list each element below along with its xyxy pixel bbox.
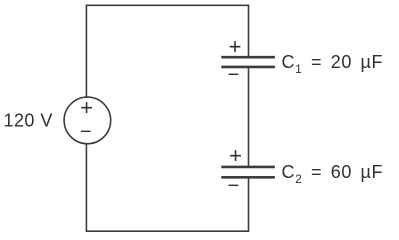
svg-text:−: −: [228, 64, 240, 86]
voltage source V circle: [64, 97, 111, 144]
capacitor C1 top plate: [221, 56, 275, 59]
svg-text:−: −: [80, 121, 92, 143]
wire left lower segment: [85, 144, 87, 231]
svg-text:C1 = 20 µF: C1 = 20 µF: [282, 52, 384, 76]
svg-text:+: +: [80, 95, 93, 120]
wire right upper segment (top to C1): [248, 5, 250, 56]
capacitor C2 bottom plate: [221, 176, 275, 179]
svg-text:+: +: [229, 143, 242, 168]
capacitor C2 top plate: [221, 166, 275, 169]
wire right lower segment (C2 to bottom): [248, 178, 250, 232]
wire top side: [86, 4, 250, 6]
svg-text:+: +: [229, 34, 242, 59]
svg-text:C2 = 60 µF: C2 = 60 µF: [282, 162, 384, 186]
wire right middle segment (C1 to C2): [248, 67, 250, 167]
svg-text:−: −: [228, 175, 240, 197]
svg-text:120 V: 120 V: [4, 111, 53, 131]
capacitor C1 bottom plate: [221, 66, 275, 69]
wire bottom side: [86, 230, 250, 232]
wire left upper segment: [85, 5, 87, 97]
